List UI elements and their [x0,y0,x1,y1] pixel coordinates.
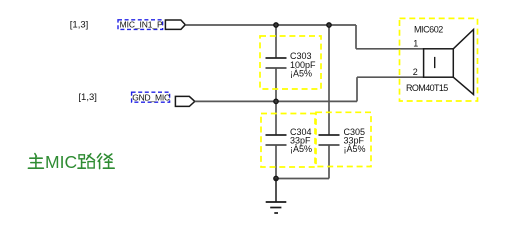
svg-text:ROM40T15: ROM40T15 [406,83,448,93]
svg-text:GND_MIC: GND_MIC [132,93,170,103]
wire bottom net to ground [276,178,329,180]
junction on top net at C305 [327,23,331,27]
wire corner down to pin 1 [355,25,357,49]
capacitor C303 plates [266,58,287,68]
junction on GND net at C303/C304 [274,99,278,103]
wire C303 bottom stub to GND net [275,68,277,101]
wire MIC_IN1_P top horizontal [185,24,356,26]
wire C304 bottom stub [275,145,277,179]
microphone MIC602 body [424,49,454,77]
junction on top net at C303 [274,23,278,27]
microphone element line [434,57,436,68]
glyph 径 [97,154,114,169]
capacitor C305 plates [319,135,340,145]
highlight box C304 (yellow dashed) [261,114,315,168]
svg-text:¡À5%: ¡À5% [290,69,312,79]
svg-text:1: 1 [413,39,418,49]
ground stub [275,179,277,203]
svg-text:[1,3]: [1,3] [78,92,97,103]
highlight box C305 (yellow dashed) [316,112,371,166]
wire GND_MIC horizontal [195,100,357,102]
net label MIC_IN1_P (blue dashed selection box) [118,20,163,30]
ground symbol [266,202,287,213]
wire to MIC pin 1 [356,48,424,50]
wire to MIC pin 2 [357,76,424,78]
svg-text:MIC602: MIC602 [414,25,443,35]
glyph 主 [28,154,43,169]
title text 主MIC路径 (green) [28,152,114,172]
microphone horn [453,30,473,95]
svg-text:¡À5%: ¡À5% [344,144,366,154]
capacitor C304 plates [266,135,287,145]
svg-text:¡À5%: ¡À5% [290,144,312,154]
svg-text:MIC: MIC [45,152,77,172]
highlight box C303 (yellow dashed) [260,36,321,89]
wire C303 top stub [275,25,277,58]
svg-text:2: 2 [413,67,418,77]
highlight box MIC602 (yellow dashed) [400,18,478,101]
port GND_MIC [175,96,194,106]
port MIC_IN1_P [165,20,185,29]
glyph 路 [78,154,95,168]
svg-text:[1,3]: [1,3] [70,19,89,30]
svg-text:MIC_IN1_P: MIC_IN1_P [120,20,163,30]
net label GND_MIC (blue dashed selection box) [132,92,170,102]
wire C304 top stub [275,101,277,135]
junction on bottom net at ground [274,176,278,180]
wire C305 vertical from top net (crosses GND wire, no junction) [328,25,330,135]
wire up from GND net to pin 2 [356,77,358,101]
wire C305 bottom stub [328,145,330,179]
